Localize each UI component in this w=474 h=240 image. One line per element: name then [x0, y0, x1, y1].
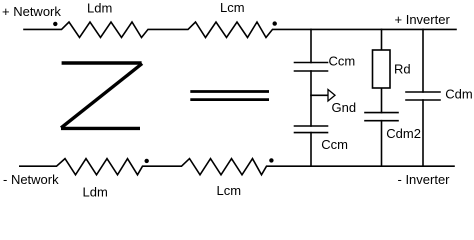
svg-text:Lcm: Lcm — [220, 0, 245, 15]
svg-text:Ldm: Ldm — [83, 184, 108, 199]
svg-text:Gnd: Gnd — [332, 100, 357, 115]
svg-text:+ Network: + Network — [2, 4, 61, 19]
svg-text:Cdm2: Cdm2 — [386, 126, 421, 141]
svg-text:Cdm: Cdm — [445, 86, 472, 101]
svg-text:Lcm: Lcm — [217, 183, 242, 198]
svg-text:- Network: - Network — [3, 172, 59, 187]
svg-text:Ldm: Ldm — [87, 0, 112, 15]
svg-text:- Inverter: - Inverter — [398, 172, 451, 187]
svg-text:+ Inverter: + Inverter — [395, 12, 451, 27]
svg-text:Rd: Rd — [394, 61, 411, 76]
svg-text:Ccm: Ccm — [329, 54, 356, 69]
svg-text:Ccm: Ccm — [321, 137, 348, 152]
